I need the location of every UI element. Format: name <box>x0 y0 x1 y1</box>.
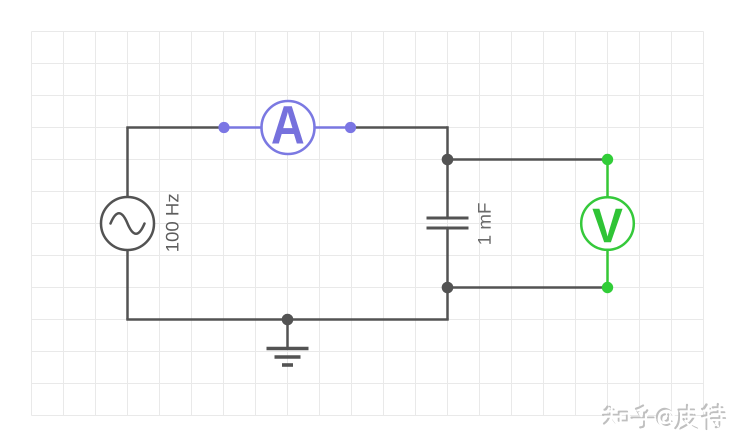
label 100 Hz <box>166 194 179 251</box>
wire ammeter purple segment <box>223 126 351 129</box>
node dot green bottom <box>602 282 613 293</box>
@ outer <box>657 409 672 425</box>
wire top horizontal (gray segments) <box>126 126 447 129</box>
ground stem <box>286 320 289 349</box>
node dot green top <box>602 154 613 165</box>
皮 <box>675 405 697 429</box>
voltmeter green wire <box>606 160 609 288</box>
node dot purple right <box>345 122 356 133</box>
AC source sine wave <box>111 213 145 234</box>
特 <box>704 406 727 431</box>
wire left vertical <box>126 128 129 320</box>
特 <box>702 404 725 429</box>
@ inner a <box>663 416 672 423</box>
ground bars <box>267 349 309 366</box>
乎 <box>632 406 654 428</box>
ground junction dot <box>282 314 294 326</box>
watermark 知乎 @皮特 <box>603 404 727 431</box>
知 mouth <box>621 414 629 423</box>
voltmeter circle <box>581 197 634 250</box>
wire bottom horizontal <box>126 318 448 321</box>
wire to voltmeter bottom <box>448 286 608 289</box>
@ outer <box>659 411 674 427</box>
知 mouth <box>619 412 627 421</box>
@ inner a <box>662 414 671 421</box>
capacitor plates <box>427 218 469 228</box>
junction node bottom (cap/voltmeter) <box>442 282 454 294</box>
AC source circle <box>101 197 154 250</box>
知 <box>603 407 617 424</box>
ammeter circle <box>262 101 315 154</box>
皮 <box>677 407 699 431</box>
label 1 mF <box>478 203 491 244</box>
voltmeter letter V <box>592 209 622 243</box>
node dot purple left <box>218 122 229 133</box>
ammeter letter A <box>272 106 303 143</box>
乎 <box>633 407 655 429</box>
wire to voltmeter top <box>448 158 608 161</box>
知 <box>605 408 619 425</box>
junction node top (cap/voltmeter) <box>442 154 454 166</box>
wire capacitor branch vertical <box>446 126 449 319</box>
